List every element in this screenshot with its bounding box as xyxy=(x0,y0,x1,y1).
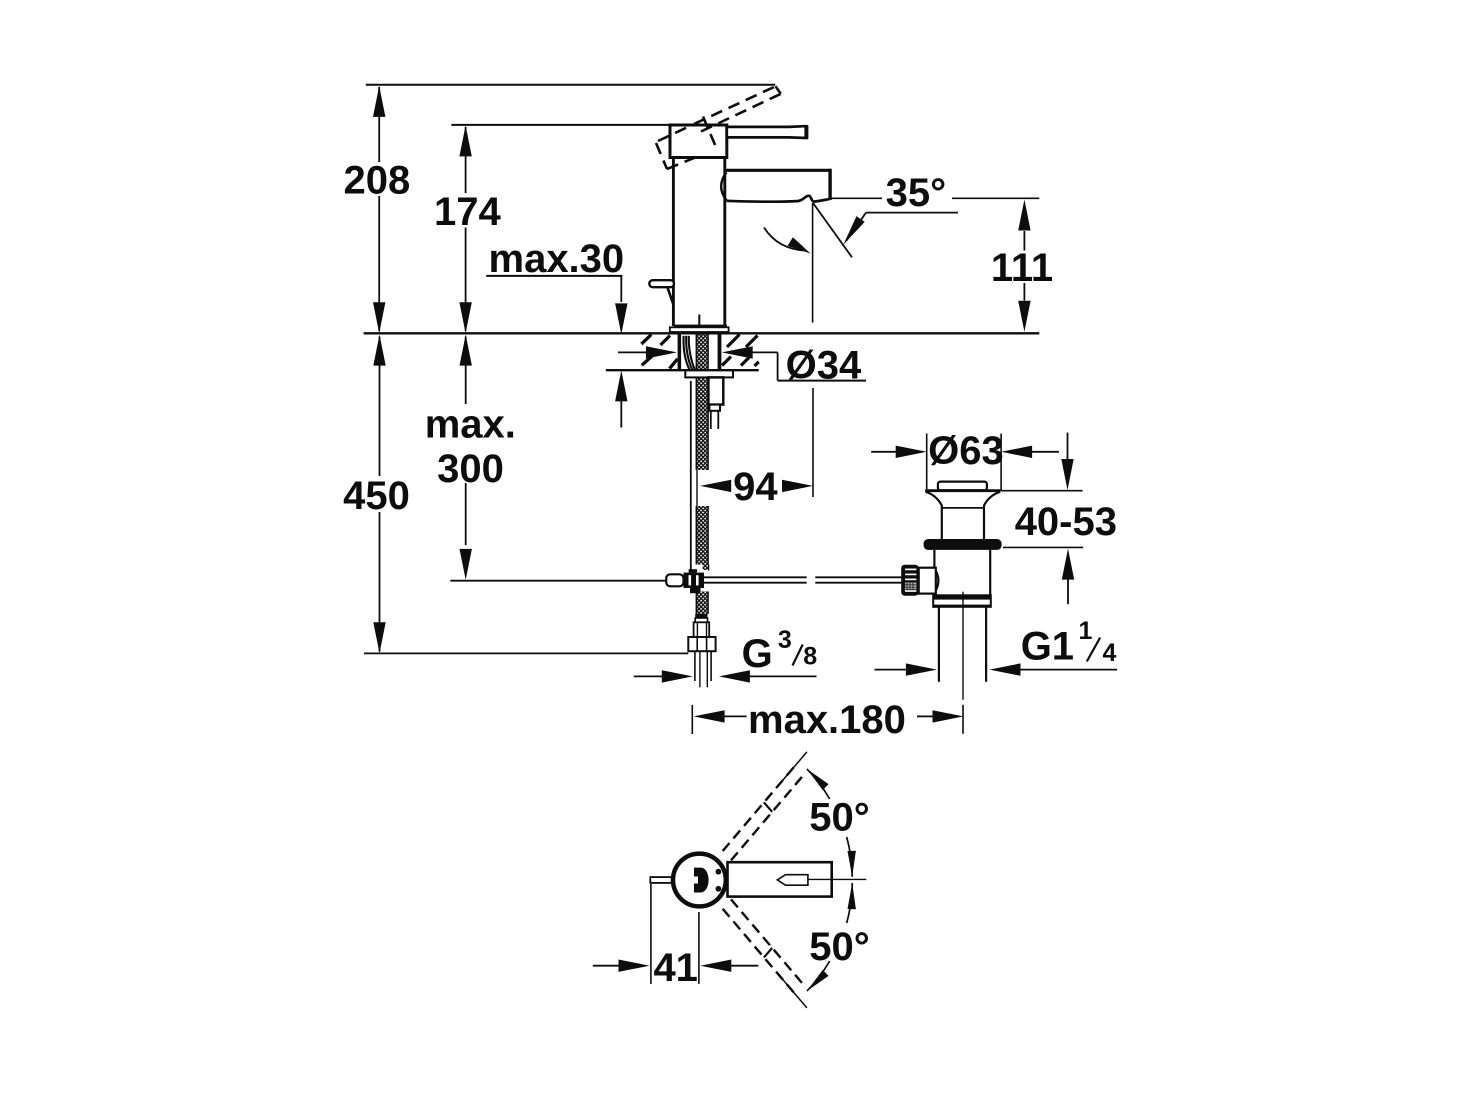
dimension diameter 34 arrows and leader xyxy=(618,351,647,353)
spout underside with aerator wave xyxy=(727,196,832,202)
drain gasket xyxy=(924,539,1002,550)
drain knob connector xyxy=(919,568,936,594)
dimension 208 line xyxy=(378,87,380,162)
faucet body right wall xyxy=(723,158,726,327)
dimension max.300 line xyxy=(465,337,467,405)
extension line from spout outlet xyxy=(831,197,882,199)
dimension 40-53 bottom arrow xyxy=(1062,549,1074,580)
braided hose segment lower xyxy=(696,506,709,571)
top view spout xyxy=(728,862,832,896)
dimension 450 arrows xyxy=(373,335,385,366)
shank hole left wall xyxy=(678,334,682,369)
top view handle hole (D shape) xyxy=(694,868,709,893)
extension line 174 level xyxy=(451,124,671,126)
svg-text:50°: 50° xyxy=(809,796,870,840)
svg-text:111: 111 xyxy=(991,246,1053,290)
countertop top line xyxy=(364,332,1040,334)
lever tip end cap xyxy=(804,126,808,139)
dimension 40-53 top arrow xyxy=(1067,433,1069,460)
faucet centerline above base xyxy=(698,315,700,334)
tee tab above xyxy=(689,569,697,572)
top view lower phantom lever xyxy=(723,899,805,995)
mounting nut step xyxy=(709,405,720,411)
svg-text:41: 41 xyxy=(653,946,698,990)
dimension 450 line xyxy=(379,337,381,477)
tee tab below xyxy=(690,588,701,593)
dimension max.30 leader xyxy=(486,275,622,277)
lever handle (horizontal) xyxy=(727,126,807,138)
pop-up rod vertical xyxy=(690,381,692,578)
dimension max.180 xyxy=(691,705,693,734)
35 degree construction line xyxy=(813,203,852,257)
braided hose below tee xyxy=(696,592,709,614)
washer plate under counter xyxy=(685,370,733,377)
drain centerline xyxy=(962,592,964,700)
lever phantom (dashed raised position) xyxy=(656,86,781,169)
slash of G1 1/4 xyxy=(1087,638,1100,662)
svg-text:4: 4 xyxy=(1103,639,1117,667)
svg-text:8: 8 xyxy=(803,642,817,670)
svg-text:94: 94 xyxy=(733,465,778,509)
hose edge in gap xyxy=(696,470,698,506)
35 degree leader xyxy=(866,212,958,214)
svg-text:300: 300 xyxy=(437,447,504,491)
spout left arc xyxy=(721,172,726,200)
faucet body left wall xyxy=(672,158,675,327)
counter hatch dashes xyxy=(641,335,758,369)
top view centerline xyxy=(808,878,866,880)
hose collar xyxy=(694,622,710,637)
dimension max.30 arrows xyxy=(615,303,627,334)
pop-up wire into body xyxy=(668,288,674,306)
braided hose segment in hole xyxy=(696,334,709,369)
svg-text:max.180: max.180 xyxy=(748,698,906,742)
top view faucet body ring xyxy=(673,854,726,907)
horizontal pop-up rod to drain xyxy=(704,576,807,578)
hose curves inside hole xyxy=(684,336,690,369)
dimension 111 arrows xyxy=(1018,200,1030,231)
top view screw dots xyxy=(716,869,722,875)
aerator centerline xyxy=(812,203,814,323)
dimension diameter 63 arrows xyxy=(871,451,897,453)
svg-text:208: 208 xyxy=(344,159,411,203)
flange top extension line xyxy=(1001,490,1083,492)
extension line top (208 level) xyxy=(366,84,776,86)
swing arc arrowhead xyxy=(788,237,811,253)
hose end tube xyxy=(695,618,707,622)
35 degree leader arrowhead xyxy=(843,216,864,245)
escutcheon plate xyxy=(670,327,729,332)
top view upper phantom lever xyxy=(723,764,805,860)
gasket bottom extension line xyxy=(1003,546,1083,548)
G3/8 tube end xyxy=(694,651,696,681)
svg-text:G: G xyxy=(742,632,773,676)
dimension G1 1/4 arrows xyxy=(875,669,908,671)
dimension 208 arrows xyxy=(373,86,385,117)
drain body inner line xyxy=(942,507,984,509)
drain knurled knob xyxy=(901,565,919,596)
braided hose segment upper xyxy=(696,378,709,470)
rod clevis xyxy=(666,574,683,586)
svg-text:G1: G1 xyxy=(1021,624,1074,668)
hose end dark band xyxy=(695,614,707,618)
drain body bulge arc xyxy=(934,568,938,593)
lever phantom tip cap xyxy=(776,86,781,94)
svg-text:Ø34: Ø34 xyxy=(786,343,862,387)
hex coupling nut xyxy=(688,637,715,651)
dimension 41 arrows xyxy=(593,965,620,967)
upper 50 degree arc xyxy=(807,769,830,799)
slash of G 3/8 xyxy=(793,645,803,666)
svg-text:1: 1 xyxy=(1079,617,1093,645)
swing arc xyxy=(764,228,806,251)
dimension max.300 arrows xyxy=(460,335,472,366)
drain flange sides xyxy=(926,492,942,540)
spout top xyxy=(725,169,831,172)
svg-text:40-53: 40-53 xyxy=(1015,500,1117,544)
dimension 41 extension lines xyxy=(650,884,652,984)
dimension 111 line xyxy=(1023,231,1025,251)
svg-text:174: 174 xyxy=(434,190,501,234)
spout right end xyxy=(828,169,831,200)
pop-up rod horizontal reference (max300 level) xyxy=(450,580,666,582)
dimension 174 arrows xyxy=(459,125,471,156)
dimension G3/8 arrows xyxy=(634,675,663,677)
svg-text:Ø63: Ø63 xyxy=(928,429,1004,473)
drain flange top xyxy=(925,489,1000,492)
dimension diameter 63 extension lines xyxy=(926,434,928,491)
shank hole right wall xyxy=(718,334,722,369)
drain union ring xyxy=(933,594,991,599)
dimension 94 arrows xyxy=(700,480,731,492)
svg-text:3: 3 xyxy=(778,626,792,654)
svg-text:35°: 35° xyxy=(886,171,947,215)
countertop bottom line xyxy=(606,369,759,371)
drain pop-up plug disc xyxy=(938,482,987,491)
top view pop-up rod stub xyxy=(650,877,671,883)
aerator centerline below label xyxy=(812,388,814,497)
top view aerator slot xyxy=(777,875,808,886)
mounting nut xyxy=(708,377,723,404)
lower 50 degree arc xyxy=(847,883,853,923)
svg-text:450: 450 xyxy=(343,474,410,518)
svg-text:max.30: max.30 xyxy=(489,237,625,281)
dimension 174 line xyxy=(465,127,467,193)
body base dark bar xyxy=(674,325,727,328)
svg-text:max.: max. xyxy=(425,402,516,446)
cartridge cap xyxy=(670,125,727,158)
drain tailpipe xyxy=(938,607,940,682)
reference line 450 bottom xyxy=(364,652,688,654)
rod tee block xyxy=(684,573,705,588)
svg-text:50°: 50° xyxy=(809,925,870,969)
mounting stud lines xyxy=(710,411,712,429)
pop-up lift knob xyxy=(649,280,674,287)
drain body below gasket xyxy=(933,550,935,569)
